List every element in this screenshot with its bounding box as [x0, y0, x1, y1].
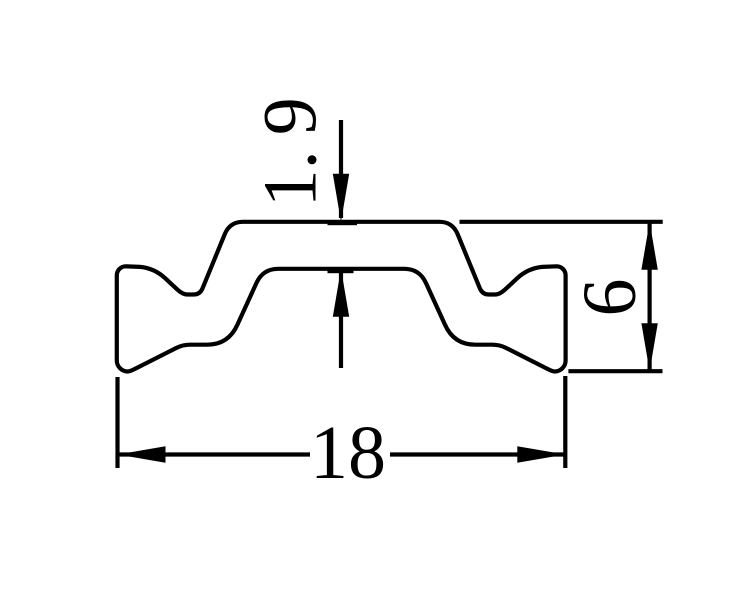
dim 1.9 upper arrowhead: [333, 174, 349, 222]
dim 1.9 lower leader line: [339, 272, 343, 368]
dim 6 lower arrowhead: [641, 323, 657, 371]
dim 18 right arrowhead: [517, 446, 565, 462]
dim 1.9 upper arrow contact flare: [328, 220, 358, 225]
dim 6 bottom extension line: [568, 369, 662, 373]
profile outline: [117, 222, 566, 372]
dim 18 dimension line left segment: [118, 452, 310, 456]
dim 1.9 upper leader line: [339, 120, 343, 218]
dim 1.9 lower arrowhead: [333, 269, 349, 317]
dim 18 dimension line right segment: [390, 452, 565, 456]
dim 6 top extension line: [460, 220, 663, 224]
svg-text:1. 9: 1. 9: [249, 97, 333, 207]
svg-text:18: 18: [310, 411, 386, 495]
dim 18 left extension line: [115, 377, 119, 468]
dim 6 upper arrowhead: [641, 222, 657, 270]
dim 6 dimension line: [647, 223, 651, 370]
svg-text:6: 6: [568, 279, 652, 317]
dim 18 left arrowhead: [118, 446, 166, 462]
dim 18 right extension line: [563, 376, 567, 468]
dim 1.9 lower arrow contact flare: [328, 268, 354, 273]
